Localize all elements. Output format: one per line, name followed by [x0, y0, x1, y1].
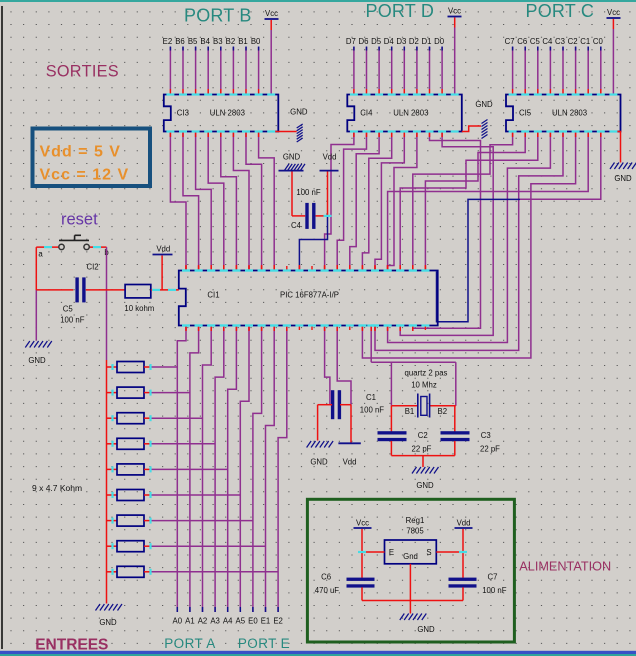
svg-text:C1: C1	[580, 37, 590, 46]
svg-text:C1: C1	[366, 393, 376, 402]
svg-text:10 kohm: 10 kohm	[124, 304, 154, 313]
svg-text:PORT E: PORT E	[238, 636, 290, 651]
svg-text:quartz 2 pas: quartz 2 pas	[405, 369, 448, 378]
svg-text:10 Mhz: 10 Mhz	[411, 381, 437, 390]
svg-text:7805: 7805	[406, 527, 424, 536]
svg-text:A1: A1	[185, 617, 195, 626]
svg-text:B2: B2	[438, 407, 448, 416]
svg-text:B1: B1	[405, 407, 415, 416]
svg-text:GND: GND	[417, 625, 435, 634]
svg-text:100 nF: 100 nF	[60, 316, 85, 325]
svg-text:Vcc: Vcc	[265, 9, 278, 18]
svg-text:Vcc: Vcc	[607, 8, 620, 17]
svg-text:C4: C4	[542, 37, 553, 46]
svg-text:C6: C6	[517, 37, 527, 46]
svg-text:PIC 16F877A-I/P: PIC 16F877A-I/P	[280, 290, 339, 299]
svg-text:9 x 4.7 Kohm: 9 x 4.7 Kohm	[32, 483, 82, 493]
svg-text:D6: D6	[359, 37, 369, 46]
svg-text:GND: GND	[614, 174, 632, 183]
svg-text:100 nF: 100 nF	[360, 406, 385, 415]
svg-text:E: E	[389, 548, 394, 557]
svg-text:ULN 2803: ULN 2803	[393, 108, 428, 117]
svg-text:Vcc: Vcc	[356, 519, 369, 528]
svg-text:C7: C7	[505, 37, 515, 46]
svg-text:PORT B: PORT B	[184, 5, 252, 25]
svg-text:GND: GND	[290, 107, 308, 116]
svg-text:D2: D2	[409, 37, 419, 46]
svg-text:D7: D7	[346, 37, 356, 46]
svg-text:E2: E2	[273, 617, 283, 626]
svg-text:D4: D4	[384, 37, 395, 46]
svg-text:Vdd: Vdd	[156, 244, 170, 253]
svg-text:ULN 2803: ULN 2803	[552, 108, 587, 117]
svg-text:GND: GND	[475, 100, 493, 109]
svg-text:B4: B4	[200, 37, 210, 46]
svg-text:A5: A5	[236, 617, 246, 626]
svg-text:Reg1: Reg1	[406, 516, 425, 525]
svg-text:C0: C0	[593, 37, 604, 46]
svg-text:A2: A2	[198, 617, 208, 626]
svg-text:D1: D1	[422, 37, 432, 46]
svg-text:S: S	[426, 548, 431, 557]
svg-text:C7: C7	[488, 573, 498, 582]
svg-text:GND: GND	[310, 458, 328, 467]
svg-text:E1: E1	[261, 617, 271, 626]
svg-text:E0: E0	[248, 617, 258, 626]
svg-text:PORT C: PORT C	[526, 1, 595, 21]
svg-text:CI5: CI5	[519, 108, 532, 117]
svg-text:SORTIES: SORTIES	[46, 62, 119, 80]
svg-text:D3: D3	[396, 37, 406, 46]
svg-text:C2: C2	[568, 37, 578, 46]
svg-text:C4: C4	[291, 221, 302, 230]
svg-text:B1: B1	[238, 37, 248, 46]
svg-text:ULN 2803: ULN 2803	[210, 108, 245, 117]
svg-text:Vdd = 5 V: Vdd = 5 V	[40, 144, 121, 161]
svg-text:C6: C6	[321, 573, 331, 582]
svg-text:B6: B6	[175, 37, 185, 46]
svg-text:470 uF: 470 uF	[315, 586, 340, 595]
svg-text:Vcc = 12 V: Vcc = 12 V	[40, 167, 130, 184]
svg-text:Vdd: Vdd	[457, 519, 471, 528]
svg-text:22 pF: 22 pF	[412, 445, 432, 454]
svg-text:CI2: CI2	[87, 262, 99, 271]
svg-text:CI4: CI4	[360, 108, 373, 117]
svg-text:PORT A: PORT A	[164, 636, 215, 651]
svg-text:GND: GND	[416, 481, 434, 490]
svg-text:a: a	[38, 249, 43, 258]
svg-text:GND: GND	[99, 618, 117, 627]
svg-text:A4: A4	[223, 617, 233, 626]
svg-text:reset: reset	[61, 210, 98, 228]
svg-text:C3: C3	[555, 37, 565, 46]
svg-text:E2: E2	[163, 37, 173, 46]
svg-text:Vcc: Vcc	[448, 7, 461, 16]
svg-text:C3: C3	[481, 431, 491, 440]
svg-text:C5: C5	[63, 305, 74, 314]
svg-text:Gnd: Gnd	[403, 552, 418, 561]
svg-text:100 nF: 100 nF	[482, 586, 507, 595]
svg-text:GND: GND	[28, 356, 46, 365]
svg-text:100 nF: 100 nF	[296, 188, 321, 197]
svg-text:B0: B0	[251, 37, 261, 46]
svg-text:B5: B5	[188, 37, 198, 46]
svg-text:Vdd: Vdd	[343, 458, 357, 467]
svg-text:D0: D0	[434, 37, 445, 46]
svg-text:B3: B3	[213, 37, 223, 46]
svg-text:CI1: CI1	[207, 290, 219, 299]
svg-text:ALIMENTATION: ALIMENTATION	[519, 560, 611, 574]
svg-text:D5: D5	[371, 37, 382, 46]
svg-text:GND: GND	[283, 152, 301, 161]
svg-text:C5: C5	[530, 37, 541, 46]
svg-text:CI3: CI3	[177, 108, 189, 117]
svg-text:B2: B2	[226, 37, 236, 46]
svg-text:A3: A3	[210, 617, 220, 626]
svg-text:22 pF: 22 pF	[480, 445, 500, 454]
svg-text:PORT D: PORT D	[366, 1, 435, 21]
svg-text:A0: A0	[173, 617, 183, 626]
svg-text:Vdd: Vdd	[323, 152, 337, 161]
svg-text:C2: C2	[418, 431, 428, 440]
